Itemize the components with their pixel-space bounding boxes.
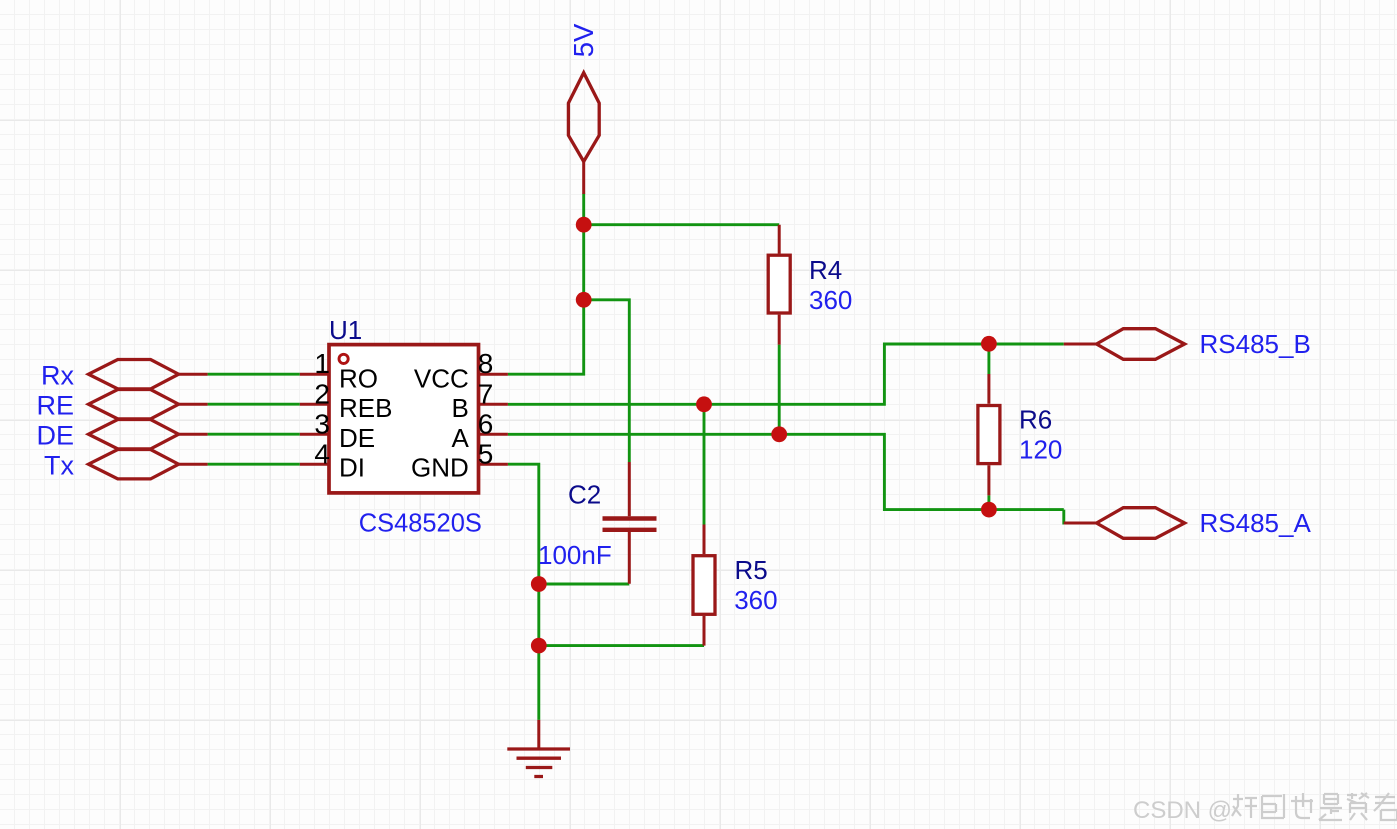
svg-text:GND: GND xyxy=(411,453,469,483)
label Rx xyxy=(41,361,74,391)
junction net B at R5 xyxy=(696,396,712,412)
svg-text:7: 7 xyxy=(478,378,494,409)
svg-text:5: 5 xyxy=(478,438,494,469)
label R5 value 360 xyxy=(734,585,777,615)
svg-text:R6: R6 xyxy=(1019,405,1052,435)
wire junction D to R6 top xyxy=(987,344,990,374)
port Tx xyxy=(89,450,208,479)
svg-text:Rx: Rx xyxy=(41,361,74,391)
watermark CJK glyphs xyxy=(1232,793,1397,820)
svg-text:Tx: Tx xyxy=(44,451,74,481)
wire R5 bottom link xyxy=(539,644,704,647)
wire DE to pin 3 xyxy=(208,433,300,436)
svg-text:REB: REB xyxy=(339,393,392,423)
junction B xyxy=(576,292,592,308)
wire junction A to junction B xyxy=(582,225,585,300)
wire RE to pin 2 xyxy=(208,403,300,406)
svg-text:U1: U1 xyxy=(329,315,362,345)
resistor R5 xyxy=(693,525,715,646)
label R4 value 360 xyxy=(809,285,852,315)
port RS485_A xyxy=(1064,508,1185,539)
svg-text:C2: C2 xyxy=(568,479,601,509)
label CS48520S xyxy=(359,508,482,538)
wire RS485_A step down xyxy=(1064,510,1097,523)
svg-text:R5: R5 xyxy=(735,555,768,585)
pin name A xyxy=(451,423,469,453)
wire 5V to junction A xyxy=(582,194,585,225)
port Rx xyxy=(89,360,208,389)
junction net A at R6 xyxy=(981,502,997,518)
junction GND at C2 xyxy=(531,576,547,592)
label C2 xyxy=(568,479,601,509)
svg-text:8: 8 xyxy=(478,348,494,379)
label RS485_B xyxy=(1200,329,1311,359)
pin name GND xyxy=(411,453,469,483)
label RS485_A xyxy=(1200,508,1312,538)
pin name DI xyxy=(339,453,365,483)
wire C2 bottom link xyxy=(539,583,630,586)
svg-text:CS48520S: CS48520S xyxy=(359,508,482,538)
svg-text:5V: 5V xyxy=(568,23,599,57)
svg-text:B: B xyxy=(451,393,468,423)
svg-text:6: 6 xyxy=(478,408,494,439)
pin number 2 xyxy=(314,378,330,409)
pin 1 indicator dot xyxy=(339,354,348,363)
label 5V xyxy=(568,23,599,57)
IC U1 CS48520S xyxy=(300,345,508,493)
svg-text:VCC: VCC xyxy=(414,363,469,393)
svg-text:R4: R4 xyxy=(809,255,842,285)
wire GND net from pin 5 xyxy=(508,464,539,720)
junction net A at R4 xyxy=(771,426,787,442)
wire net B from pin 7 to RS485_B xyxy=(508,344,1064,404)
wire Tx to pin 4 xyxy=(208,463,300,466)
svg-text:DI: DI xyxy=(339,453,365,483)
svg-text:100nF: 100nF xyxy=(538,540,612,570)
svg-text:360: 360 xyxy=(809,285,852,315)
pin name REB xyxy=(339,393,392,423)
svg-text:RO: RO xyxy=(339,363,378,393)
pin name VCC xyxy=(414,363,469,393)
wire Rx to pin 1 xyxy=(208,373,300,376)
resistor R4 xyxy=(768,225,790,345)
pin number 4 xyxy=(314,438,330,469)
port RS485_B xyxy=(1064,329,1185,360)
pin name DE xyxy=(339,423,375,453)
svg-text:2: 2 xyxy=(314,378,330,409)
label RE xyxy=(36,391,74,421)
pin number 8 xyxy=(478,348,494,379)
ground xyxy=(507,720,570,777)
wire R4 bottom to net A xyxy=(778,345,781,435)
pin number 1 xyxy=(314,348,330,379)
svg-text:RE: RE xyxy=(36,391,74,421)
pin number 3 xyxy=(314,408,330,439)
wire junction A to R4 top xyxy=(584,223,780,226)
capacitor C2 xyxy=(603,462,657,584)
port RE xyxy=(89,390,208,419)
label R5 xyxy=(735,555,768,585)
pin name B xyxy=(451,393,468,423)
watermark CSDN xyxy=(1133,797,1232,824)
svg-text:CSDN @: CSDN @ xyxy=(1133,797,1232,824)
svg-text:4: 4 xyxy=(314,438,330,469)
svg-text:120: 120 xyxy=(1019,434,1062,464)
junction A xyxy=(576,217,592,233)
power port 5V xyxy=(568,73,599,194)
wire net B junction to R5 top xyxy=(703,404,706,524)
pin number 5 xyxy=(478,438,494,469)
label R4 xyxy=(809,255,842,285)
svg-text:RS485_B: RS485_B xyxy=(1200,329,1311,359)
svg-text:3: 3 xyxy=(314,408,330,439)
wire net A from pin 6 to RS485_A xyxy=(508,434,1064,509)
svg-text:1: 1 xyxy=(314,348,330,379)
wire junction B to C2 top xyxy=(584,300,630,462)
wire R6 bottom to junction E xyxy=(987,495,990,509)
label DE xyxy=(36,421,74,451)
svg-text:DE: DE xyxy=(339,423,375,453)
junction GND at R5 xyxy=(531,638,547,654)
svg-text:DE: DE xyxy=(36,421,74,451)
pin number 7 xyxy=(478,378,494,409)
pin number 6 xyxy=(478,408,494,439)
wire junction B to pin 8 VCC xyxy=(508,300,584,374)
svg-text:RS485_A: RS485_A xyxy=(1200,508,1312,538)
label Tx xyxy=(44,451,74,481)
label U1 xyxy=(329,315,362,345)
resistor R6 xyxy=(978,374,1000,495)
label R6 value 120 xyxy=(1019,434,1062,464)
port DE xyxy=(89,420,208,449)
label R6 xyxy=(1019,405,1052,435)
svg-text:A: A xyxy=(451,423,469,453)
junction net B at R6 xyxy=(981,336,997,352)
pin name RO xyxy=(339,363,378,393)
svg-text:360: 360 xyxy=(734,585,777,615)
label C2 value 100nF xyxy=(538,540,612,570)
